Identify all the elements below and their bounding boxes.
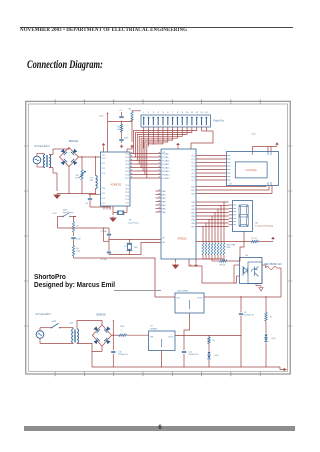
svg-text:P1.5: P1.5 — [102, 193, 106, 195]
svg-text:VIN: VIN — [150, 336, 154, 338]
svg-text:27: 27 — [76, 226, 79, 228]
voltage regulator U7 LM7805 — [149, 325, 176, 350]
svg-text:PA5: PA5 — [162, 207, 165, 210]
wire opto collector to rail — [280, 268, 282, 297]
power arrow below opto — [256, 284, 263, 292]
svg-text:P1.1: P1.1 — [102, 163, 106, 165]
svg-text:7: 7 — [172, 112, 174, 114]
svg-text:6: 6 — [167, 112, 169, 114]
svg-text:SW1: SW1 — [52, 321, 57, 323]
svg-text:9: 9 — [182, 112, 184, 114]
svg-text:P2.5: P2.5 — [125, 202, 129, 204]
svg-text:P0.0: P0.0 — [125, 153, 129, 155]
svg-text:C2 33p: C2 33p — [100, 259, 107, 261]
svg-text:P0.2: P0.2 — [125, 160, 129, 162]
pin numbers U1 right edge — [131, 152, 132, 177]
svg-text:PC4/A12: PC4/A12 — [162, 166, 169, 169]
svg-text:10: 10 — [186, 112, 189, 114]
svg-text:12: 12 — [196, 112, 199, 114]
svg-text:PC1/A9: PC1/A9 — [162, 156, 168, 159]
wire U1 bottom pins — [104, 206, 113, 215]
svg-text:7-segment/Display: 7-segment/Display — [255, 225, 274, 228]
wire B1 bottom to ground — [57, 167, 96, 195]
svg-text:PC5/A13: PC5/A13 — [162, 170, 169, 173]
svg-text:P0.5: P0.5 — [125, 171, 129, 173]
pin numbers U2 left edge — [159, 152, 160, 211]
svg-text:R4: R4 — [129, 109, 132, 111]
peripheral interface U2 AT8255 — [161, 149, 196, 259]
capacitor C2 33pF — [100, 240, 111, 261]
power arrow LCD VCC — [252, 134, 279, 146]
svg-text:C4: C4 — [85, 203, 88, 205]
wire U2 PG pins to LCD bottom — [196, 186, 272, 194]
svg-text:LED: LED — [272, 338, 276, 340]
wire J1 right pins to U2 top — [191, 127, 213, 149]
resistor R6 8.2k — [72, 246, 80, 259]
svg-text:VCC: VCC — [252, 134, 257, 136]
bridge rectifier B2 — [92, 313, 111, 346]
svg-text:4: 4 — [158, 112, 160, 114]
wire reset bottom rail — [74, 227, 156, 258]
svg-text:10uF: 10uF — [124, 138, 129, 140]
svg-text:PA1: PA1 — [162, 193, 165, 196]
svg-text:PC6/A14: PC6/A14 — [162, 173, 169, 176]
wire ground return rail — [92, 366, 287, 371]
net label VSS with arrow — [189, 259, 198, 267]
svg-text:AT8255: AT8255 — [178, 237, 187, 241]
svg-text:3: 3 — [153, 112, 155, 114]
wire data bus U1 to U2 — [130, 154, 161, 179]
svg-text:PL2: PL2 — [192, 162, 195, 164]
svg-text:U4 LM7805: U4 LM7805 — [177, 291, 189, 293]
header rule — [20, 27, 293, 28]
svg-text:U5: U5 — [245, 255, 249, 257]
svg-text:RN1: RN1 — [227, 247, 232, 249]
power arrow VCC at U1 left top — [102, 144, 104, 153]
svg-text:10uF: 10uF — [76, 239, 81, 241]
ground symbol below U2 — [173, 264, 179, 269]
wire U7 ground leg — [161, 351, 163, 368]
svg-text:AC Input 220 V: AC Input 220 V — [36, 313, 52, 316]
svg-text:AT89C51: AT89C51 — [111, 183, 122, 187]
svg-text:PG0: PG0 — [191, 186, 195, 188]
power arrow into U1 pin 40 — [127, 145, 133, 153]
svg-text:24V: 24V — [70, 322, 74, 324]
designer credit text — [34, 274, 115, 291]
potentiometer R2 — [75, 157, 85, 194]
svg-text:LED: LED — [215, 355, 219, 357]
power arrow into U1 pin 9 — [120, 145, 122, 148]
svg-text:PG1: PG1 — [191, 190, 195, 192]
svg-text:R10: R10 — [121, 326, 126, 328]
switch SW2 Input Reset — [53, 210, 77, 218]
capacitor C9 2200uF 35V — [239, 297, 255, 367]
connector J1 Patch Pot — [141, 112, 224, 127]
svg-text:C9: C9 — [244, 312, 247, 314]
wire T2 secondary to bridge B2 — [77, 321, 102, 352]
svg-text:PA6: PA6 — [162, 211, 165, 214]
svg-text:P2.1: P2.1 — [125, 188, 129, 190]
AC source V1 (top supply) — [33, 145, 50, 164]
capacitor C1 33pF — [100, 228, 111, 240]
svg-text:P1.3: P1.3 — [102, 173, 106, 175]
svg-text:10k: 10k — [75, 178, 79, 180]
wire T1 secondary to bridge B1 — [49, 148, 69, 192]
svg-text:PL7: PL7 — [192, 180, 195, 182]
page number 6 — [0, 425, 320, 431]
svg-text:PB7: PB7 — [191, 226, 194, 228]
wire stubs into 7-segment — [229, 205, 233, 225]
crystal Y1 (below U1) — [113, 206, 139, 224]
svg-text:PB2: PB2 — [191, 209, 194, 211]
svg-text:1: 1 — [121, 330, 123, 332]
svg-text:P0.6: P0.6 — [125, 174, 129, 176]
svg-text:PC3/A11: PC3/A11 — [162, 163, 169, 166]
svg-text:P0.7: P0.7 — [125, 178, 129, 180]
wire feed to regulator U4 — [154, 257, 175, 297]
resistor R9 and LED D1 — [264, 297, 276, 367]
svg-text:PC7/A15: PC7/A15 — [162, 177, 169, 180]
svg-text:P0.1: P0.1 — [125, 157, 129, 159]
svg-text:R2: R2 — [76, 175, 80, 177]
svg-text:Patch Pot: Patch Pot — [214, 119, 225, 122]
wire U7 output to +5V distribution — [175, 335, 241, 336]
svg-text:10k: 10k — [117, 129, 120, 131]
7-segment display U6 — [233, 201, 275, 232]
svg-text:PL0: PL0 — [192, 155, 195, 157]
wire node bus left — [89, 189, 101, 195]
svg-text:PB0: PB0 — [191, 202, 194, 204]
capacitor C5 — [119, 110, 123, 124]
svg-text:P1.4: P1.4 — [102, 188, 106, 190]
svg-text:PL6: PL6 — [192, 176, 195, 178]
header text — [20, 28, 187, 33]
wire VCC node to U1 — [107, 113, 132, 152]
wire LCD VCC top — [253, 147, 278, 152]
resistor R4 (top) — [129, 109, 142, 122]
svg-text:P0.3: P0.3 — [125, 164, 129, 166]
svg-text:Input Reset: Input Reset — [129, 221, 140, 224]
AC source V2 (bottom supply) — [36, 313, 52, 339]
svg-text:BRIDGE: BRIDGE — [97, 313, 107, 316]
wire U4 ground leg — [184, 313, 190, 336]
svg-text:2: 2 — [148, 112, 150, 114]
svg-text:5: 5 — [162, 112, 164, 114]
svg-text:PA2: PA2 — [162, 197, 165, 200]
svg-text:P2.3: P2.3 — [125, 195, 129, 197]
signature line — [114, 289, 161, 292]
switch SW1 — [40, 321, 73, 331]
wire raw DC riser — [113, 320, 114, 335]
wire AC bottom to T2 — [40, 338, 73, 343]
svg-text:BRIDGE: BRIDGE — [69, 140, 79, 143]
wire XTAL1 to U2 — [108, 239, 161, 240]
svg-text:PG2: PG2 — [191, 193, 195, 195]
section title — [27, 59, 103, 71]
resistor R5 — [72, 222, 79, 236]
svg-text:R1: R1 — [90, 178, 94, 180]
svg-text:VCC: VCC — [99, 116, 104, 118]
svg-text:VOUT: VOUT — [197, 297, 203, 299]
svg-text:2200uF 35: 2200uF 35 — [244, 315, 254, 317]
svg-text:8: 8 — [177, 112, 179, 114]
svg-text:11M: 11M — [134, 247, 138, 249]
svg-text:U1: U1 — [102, 155, 105, 157]
svg-text:U6: U6 — [255, 223, 259, 225]
voltage regulator U4 LM7805 — [175, 291, 204, 314]
wire reset chain — [58, 217, 110, 229]
svg-text:PB6: PB6 — [191, 223, 194, 225]
svg-text:P2.0: P2.0 — [125, 185, 129, 187]
resistor R11 and LED D2 — [207, 336, 219, 368]
svg-text:PA4: PA4 — [162, 204, 165, 207]
svg-text:X1: X1 — [124, 246, 127, 248]
relay RLY BRKR — [264, 264, 282, 269]
wire U2 to opto input — [189, 259, 237, 283]
svg-text:PA0: PA0 — [162, 190, 165, 193]
svg-text:PB3: PB3 — [191, 212, 194, 214]
svg-text:VOUT: VOUT — [168, 336, 174, 338]
svg-text:PB1: PB1 — [191, 205, 194, 207]
svg-text:AC Input 220 V: AC Input 220 V — [34, 145, 50, 148]
svg-text:P1.2: P1.2 — [102, 168, 106, 170]
svg-text:PB5: PB5 — [191, 219, 194, 221]
svg-text:1: 1 — [143, 112, 145, 114]
bridge rectifier B1 — [60, 140, 79, 167]
resistor R8 on VSS rail — [212, 232, 244, 267]
crystal Y2 11MHz — [124, 239, 138, 255]
optocoupler U5 — [237, 255, 267, 283]
power arrow above R7 — [272, 237, 274, 240]
wire U2 PB pins to 7-segment and resistor comb — [196, 201, 229, 242]
wire U2 left PA pin stubs — [156, 191, 162, 212]
microcontroller U1 AT89C51 — [101, 152, 131, 206]
svg-text:PC2/A10: PC2/A10 — [162, 159, 169, 162]
power arrow above U2 — [177, 143, 179, 149]
svg-text:11: 11 — [191, 112, 194, 114]
wire fan J1 to bus (staircase) — [133, 127, 197, 179]
svg-text:P2.4: P2.4 — [125, 199, 129, 201]
svg-text:2200uF 25: 2200uF 25 — [118, 354, 128, 356]
svg-text:P1.7: P1.7 — [102, 203, 106, 205]
resistor R1 — [90, 157, 98, 189]
svg-text:PB4: PB4 — [191, 216, 194, 218]
svg-text:PC0/A8: PC0/A8 — [162, 152, 168, 155]
svg-text:P1.6: P1.6 — [102, 198, 106, 200]
resistor R10 — [119, 326, 149, 336]
wire U2 to LCD data — [196, 156, 227, 181]
svg-text:C8: C8 — [129, 220, 132, 222]
svg-text:PA3: PA3 — [162, 200, 165, 203]
svg-text:ORLY/BRKR 120: ORLY/BRKR 120 — [264, 264, 282, 266]
svg-text:1k: 1k — [213, 340, 215, 342]
net label VCC — [99, 116, 104, 118]
capacitor C11 2200uF 35V — [182, 336, 199, 368]
svg-text:PL5: PL5 — [192, 173, 195, 175]
svg-text:8.2k: 8.2k — [76, 251, 80, 253]
capacitor C4 10uF — [85, 194, 110, 209]
wire B1 output node — [79, 156, 101, 157]
svg-text:1k: 1k — [270, 317, 272, 319]
svg-text:C5: C5 — [120, 110, 123, 112]
svg-text:R7 10: R7 10 — [252, 238, 258, 240]
wire XTAL2 to U2 — [109, 243, 161, 255]
ground symbol (top supply) — [54, 194, 60, 199]
svg-text:U3: U3 — [229, 183, 232, 185]
svg-text:VIN: VIN — [177, 297, 181, 299]
transformer T2 — [70, 322, 79, 343]
svg-text:2200uF 35: 2200uF 35 — [189, 354, 199, 356]
LCD module U3 — [227, 152, 279, 186]
resistor network RN1 330 ohm x8 — [202, 243, 235, 255]
footer bar — [24, 426, 295, 431]
capacitor C6 — [119, 138, 129, 144]
svg-text:PL3: PL3 — [192, 166, 195, 168]
svg-text:330 OHM: 330 OHM — [227, 245, 236, 247]
transformer T1 — [44, 155, 51, 168]
wire U2 bottom to ground — [175, 259, 177, 263]
resistor R7 10k (to VCC) — [196, 238, 273, 243]
svg-text:P2.2: P2.2 — [125, 192, 129, 194]
svg-text:PL1: PL1 — [192, 159, 195, 161]
svg-text:R8 10: R8 10 — [220, 265, 226, 267]
resistor R3 — [117, 124, 123, 139]
svg-text:P1.0: P1.0 — [102, 158, 106, 160]
svg-text:XTL: XTL — [162, 242, 165, 244]
svg-text:13: 13 — [200, 112, 203, 114]
svg-text:XTL: XTL — [162, 238, 165, 240]
svg-text:C1 33p: C1 33p — [100, 231, 107, 233]
capacitor C10 2200uF 25V — [111, 335, 128, 367]
svg-text:VCC: VCC — [53, 213, 58, 215]
wire x132 down to U1 — [131, 122, 133, 143]
svg-text:10k: 10k — [90, 180, 94, 182]
ground symbol below U1 — [110, 217, 116, 222]
svg-text:LCD Disp: LCD Disp — [245, 168, 257, 172]
svg-text:PL4: PL4 — [192, 169, 195, 171]
capacitor C7 10uF — [71, 238, 81, 246]
wire B2 output node — [112, 335, 119, 336]
wire AC source to transformer T1 — [37, 154, 45, 168]
svg-text:LM7805: LM7805 — [150, 328, 158, 330]
svg-text:P0.4: P0.4 — [125, 167, 129, 169]
svg-text:U7: U7 — [150, 325, 153, 327]
svg-text:14: 14 — [205, 112, 208, 114]
wire +5V rail — [204, 296, 281, 297]
wire B2 bottom — [92, 346, 102, 367]
wire RN1 common rail — [196, 255, 224, 259]
